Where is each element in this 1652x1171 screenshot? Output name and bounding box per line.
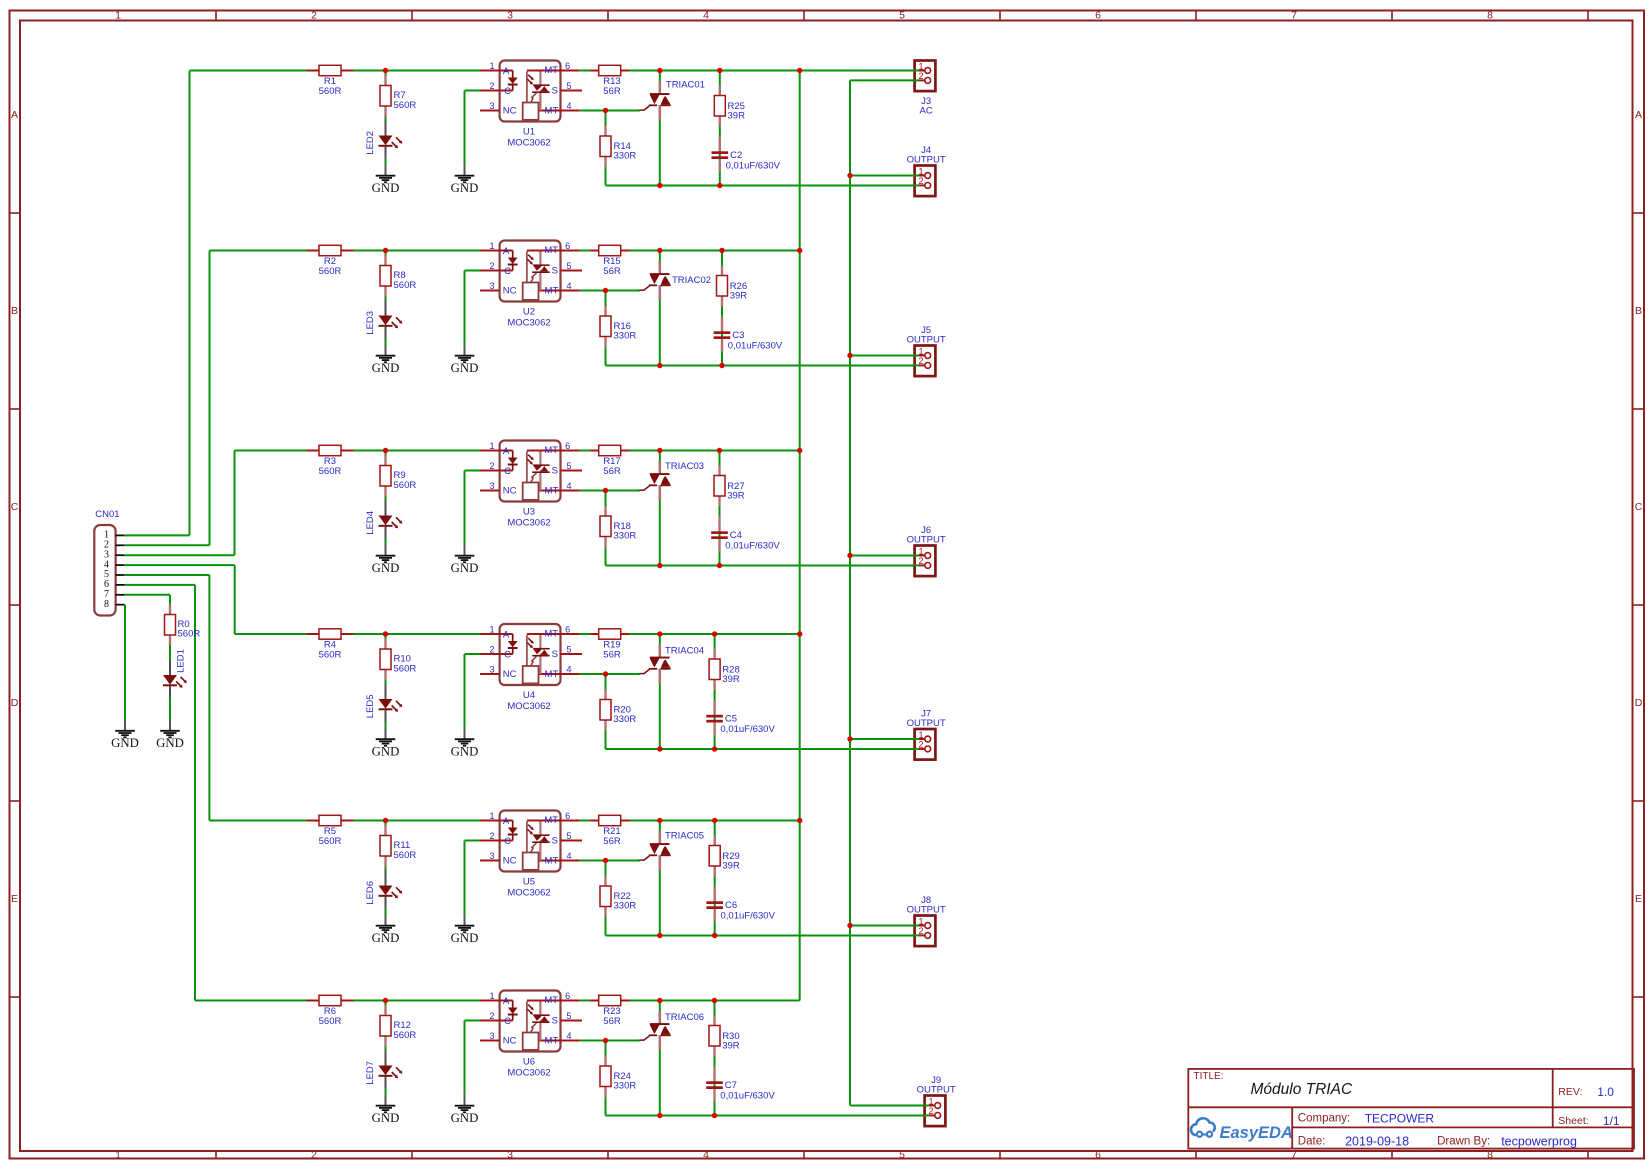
svg-text:560R: 560R	[394, 1030, 417, 1041]
svg-text:1.0: 1.0	[1597, 1085, 1614, 1099]
wire trunk channel 6	[194, 585, 196, 1001]
junction	[717, 183, 722, 188]
wire LED branch	[385, 634, 387, 648]
svg-text:MOC3062: MOC3062	[507, 701, 550, 712]
wire gate net	[580, 290, 640, 292]
optocoupler U6 MOC3062	[480, 991, 582, 1079]
wire AC return bus	[849, 80, 851, 1105]
svg-text:E: E	[11, 893, 18, 905]
svg-text:2: 2	[311, 10, 317, 22]
svg-text:TRIAC03: TRIAC03	[665, 461, 704, 472]
svg-text:A: A	[503, 246, 510, 257]
svg-text:56R: 56R	[603, 266, 621, 277]
svg-text:LED7: LED7	[365, 1061, 376, 1085]
junction	[383, 68, 388, 73]
svg-text:GND: GND	[372, 1111, 400, 1125]
svg-text:0,01uF/630V: 0,01uF/630V	[728, 340, 783, 351]
wire channel top left	[209, 820, 480, 822]
wire to ground	[464, 1021, 466, 1095]
svg-text:GND: GND	[451, 181, 479, 195]
resistor R22 330R	[600, 876, 636, 917]
svg-text:MOC3062: MOC3062	[507, 517, 550, 528]
svg-text:5: 5	[899, 10, 905, 22]
resistor R24 330R	[600, 1056, 636, 1097]
svg-text:NC: NC	[503, 285, 517, 296]
svg-text:U6: U6	[523, 1056, 535, 1067]
wire capacitor pins	[713, 1067, 715, 1082]
wire triac top	[659, 451, 661, 473]
wire U cathode	[465, 653, 481, 655]
wire trunk channel 4	[234, 565, 236, 634]
junction	[847, 353, 852, 358]
svg-text:U4: U4	[523, 690, 535, 701]
pin 7 of CN01	[116, 594, 125, 596]
wire snubber top	[721, 251, 723, 276]
svg-text:GND: GND	[451, 1111, 479, 1125]
junction	[847, 923, 852, 928]
svg-text:0,01uF/630V: 0,01uF/630V	[720, 1090, 775, 1101]
LED LED2	[365, 121, 403, 159]
connector J7 OUTPUT	[907, 709, 946, 760]
svg-text:C6: C6	[725, 900, 737, 911]
svg-text:GND: GND	[372, 745, 400, 759]
svg-text:330R: 330R	[614, 331, 637, 342]
svg-text:GND: GND	[451, 361, 479, 375]
wire R to LED	[385, 494, 387, 502]
wire U cathode	[465, 840, 481, 842]
resistor R15 56R	[591, 245, 630, 277]
svg-text:OUTPUT: OUTPUT	[907, 154, 946, 165]
svg-text:MT: MT	[544, 245, 558, 256]
svg-text:1: 1	[918, 546, 923, 556]
svg-text:MT: MT	[544, 629, 558, 640]
svg-text:TRIAC04: TRIAC04	[665, 646, 704, 657]
svg-text:8: 8	[104, 599, 109, 610]
resistor R8 560R	[380, 256, 416, 297]
junction	[603, 488, 608, 493]
svg-text:3: 3	[507, 1149, 513, 1161]
svg-text:3: 3	[489, 101, 494, 111]
wire LED to ground	[385, 338, 387, 346]
resistor R19 56R	[591, 629, 630, 661]
pin 1 of J6	[912, 555, 919, 557]
junction	[383, 631, 388, 636]
wire channel top left	[235, 633, 480, 635]
svg-text:C4: C4	[730, 530, 742, 541]
svg-text:2: 2	[918, 740, 923, 750]
resistor R11 560R	[380, 826, 416, 867]
wire R to LED	[385, 864, 387, 872]
resistor R26 39R	[717, 266, 748, 307]
svg-text:2: 2	[918, 176, 923, 186]
wire CN01.4 to channel 4	[125, 564, 235, 566]
optocoupler U4 MOC3062	[480, 624, 582, 712]
wire R down	[605, 1041, 607, 1067]
svg-text:E: E	[1635, 893, 1642, 905]
svg-text:5: 5	[899, 1149, 905, 1161]
svg-text:Módulo TRIAC: Módulo TRIAC	[1251, 1081, 1353, 1098]
svg-text:MT: MT	[544, 995, 558, 1006]
wire R to bottom	[605, 730, 607, 749]
resistor R13 56R	[591, 65, 630, 97]
svg-text:1: 1	[489, 811, 494, 821]
svg-text:6: 6	[565, 991, 570, 1001]
svg-text:C: C	[504, 86, 511, 97]
ground	[451, 1095, 479, 1125]
svg-text:LED2: LED2	[365, 131, 376, 155]
junction	[712, 746, 717, 751]
svg-text:TRIAC06: TRIAC06	[665, 1012, 704, 1023]
wire channel top left	[190, 70, 481, 72]
wire J9 pin1	[850, 1105, 929, 1107]
wire LED to ground	[385, 538, 387, 546]
resistor R18 330R	[600, 506, 636, 547]
wire J3 pin2	[850, 79, 919, 81]
wire CN01.7 to R0	[125, 594, 170, 596]
svg-text:6: 6	[565, 241, 570, 251]
wire triac bottom	[659, 669, 661, 749]
connector CN01	[94, 509, 125, 616]
svg-text:7: 7	[1291, 1149, 1297, 1161]
ground	[111, 720, 139, 750]
junction	[717, 68, 722, 73]
svg-text:LED6: LED6	[365, 881, 376, 905]
pin 1 of J5	[912, 355, 919, 357]
wire to ground	[464, 841, 466, 915]
resistor R20 330R	[600, 690, 636, 731]
junction	[603, 671, 608, 676]
svg-text:C5: C5	[725, 713, 737, 724]
wire snubber bottom	[714, 680, 716, 749]
svg-text:MT: MT	[545, 669, 559, 680]
wire channel top left	[235, 450, 481, 452]
svg-text:MT: MT	[545, 105, 559, 116]
wire capacitor pins	[713, 700, 715, 715]
svg-text:1: 1	[489, 241, 494, 251]
svg-text:39R: 39R	[722, 1041, 740, 1052]
svg-text:C: C	[1635, 501, 1643, 513]
wire gate net	[580, 490, 640, 492]
svg-text:2: 2	[918, 926, 923, 936]
svg-text:4: 4	[566, 1031, 571, 1041]
junction	[603, 1038, 608, 1043]
junction	[603, 288, 608, 293]
junction	[712, 998, 717, 1003]
ground	[156, 720, 184, 750]
svg-text:REV:: REV:	[1558, 1086, 1582, 1098]
junction	[712, 1113, 717, 1118]
wire U cathode	[465, 470, 481, 472]
svg-text:6: 6	[1095, 10, 1101, 22]
svg-text:5: 5	[566, 831, 571, 841]
junction	[383, 448, 388, 453]
junction	[657, 68, 662, 73]
junction	[657, 563, 662, 568]
pin 2 of J7	[912, 748, 919, 750]
pin 1 of J7	[912, 738, 919, 740]
wire to ground	[464, 271, 466, 345]
svg-text:1: 1	[918, 346, 923, 356]
svg-text:OUTPUT: OUTPUT	[907, 718, 946, 729]
wire R to bottom	[605, 1097, 607, 1116]
ground	[372, 165, 400, 195]
resistor R17 56R	[591, 445, 630, 477]
svg-text:A: A	[503, 816, 510, 827]
svg-text:MOC3062: MOC3062	[507, 317, 550, 328]
connector J9 OUTPUT	[917, 1075, 956, 1126]
ground	[451, 545, 479, 575]
svg-text:1: 1	[918, 916, 923, 926]
wire trunk channel 2	[209, 251, 211, 546]
junction	[657, 818, 662, 823]
svg-text:330R: 330R	[614, 901, 637, 912]
svg-text:NC: NC	[503, 485, 517, 496]
pin 3 of CN01	[116, 554, 125, 556]
svg-text:B: B	[1635, 305, 1642, 317]
wire triac bottom	[659, 286, 661, 366]
pin 8 of CN01	[116, 604, 125, 606]
svg-text:MT: MT	[545, 1035, 559, 1046]
capacitor C2 0,01uF/630V	[712, 150, 781, 172]
capacitor C4 0,01uF/630V	[711, 530, 780, 552]
svg-text:2019-09-18: 2019-09-18	[1345, 1135, 1409, 1149]
wire gate net	[580, 110, 640, 112]
svg-text:5: 5	[566, 1011, 571, 1021]
svg-text:A: A	[503, 996, 510, 1007]
svg-text:MT: MT	[545, 285, 559, 296]
svg-text:3: 3	[489, 281, 494, 291]
wire gate net	[580, 860, 640, 862]
wire capacitor pins	[714, 887, 716, 902]
svg-text:MOC3062: MOC3062	[507, 1067, 550, 1078]
wire channel bottom	[606, 365, 919, 367]
triac TRIAC03	[639, 461, 704, 501]
wire triac top	[659, 1001, 661, 1023]
junction	[797, 68, 802, 73]
svg-text:3: 3	[489, 1031, 494, 1041]
svg-text:330R: 330R	[614, 151, 637, 162]
wire LED branch	[385, 451, 387, 465]
junction	[797, 631, 802, 636]
ground	[372, 345, 400, 375]
svg-text:1: 1	[489, 624, 494, 634]
svg-text:39R: 39R	[728, 111, 746, 122]
junction	[383, 998, 388, 1003]
wire snubber bottom	[721, 296, 723, 365]
wire to ground	[464, 471, 466, 545]
svg-text:C: C	[504, 266, 511, 277]
junction	[657, 933, 662, 938]
resistor R1 560R	[307, 65, 354, 97]
wire R0 to LED1	[169, 645, 171, 661]
junction	[719, 363, 724, 368]
svg-text:NC: NC	[503, 105, 517, 116]
svg-text:OUTPUT: OUTPUT	[907, 904, 946, 915]
svg-text:LED3: LED3	[365, 311, 376, 335]
svg-text:C7: C7	[725, 1080, 737, 1091]
resistor R7 560R	[380, 76, 416, 117]
svg-text:1: 1	[115, 10, 121, 22]
svg-text:2: 2	[489, 81, 494, 91]
triac TRIAC04	[639, 645, 704, 685]
svg-text:5: 5	[566, 461, 571, 471]
svg-text:0,01uF/630V: 0,01uF/630V	[725, 540, 780, 551]
svg-text:56R: 56R	[603, 86, 621, 97]
pin 2 of J9	[922, 1114, 929, 1116]
svg-text:56R: 56R	[603, 466, 621, 477]
svg-text:S: S	[552, 85, 558, 96]
wire R down	[605, 491, 607, 517]
svg-text:1: 1	[918, 730, 923, 740]
resistor R3 560R	[307, 445, 354, 477]
junction	[657, 248, 662, 253]
ground	[451, 345, 479, 375]
wire CN01.3 to channel 3	[125, 554, 235, 556]
svg-text:NC: NC	[503, 669, 517, 680]
wire capacitor pins	[718, 517, 720, 532]
wire capacitor pins	[719, 137, 721, 152]
svg-text:4: 4	[566, 851, 571, 861]
pin 2 of J3	[912, 79, 919, 81]
svg-text:1: 1	[489, 991, 494, 1001]
LED LED1	[163, 649, 187, 698]
junction	[847, 173, 852, 178]
wire capacitor pins	[721, 317, 723, 332]
optocoupler U1 MOC3062	[480, 61, 582, 149]
svg-text:0,01uF/630V: 0,01uF/630V	[726, 160, 781, 171]
svg-text:4: 4	[703, 10, 709, 22]
junction	[847, 553, 852, 558]
junction	[712, 933, 717, 938]
svg-text:560R: 560R	[319, 266, 342, 277]
svg-text:D: D	[1635, 697, 1643, 709]
svg-text:TECPOWER: TECPOWER	[1365, 1112, 1435, 1126]
svg-text:GND: GND	[372, 181, 400, 195]
svg-text:39R: 39R	[722, 861, 740, 872]
svg-text:3: 3	[489, 851, 494, 861]
wire R to LED	[385, 678, 387, 686]
wire triac top	[659, 251, 661, 273]
pin 1 of J4	[912, 175, 919, 177]
junction	[603, 108, 608, 113]
svg-text:S: S	[552, 465, 558, 476]
ground	[372, 545, 400, 575]
svg-text:AC: AC	[919, 105, 932, 116]
svg-text:1: 1	[489, 61, 494, 71]
svg-text:2: 2	[489, 644, 494, 654]
svg-text:5: 5	[566, 261, 571, 271]
svg-text:1: 1	[918, 166, 923, 176]
svg-text:C: C	[11, 501, 19, 513]
svg-text:56R: 56R	[603, 650, 621, 661]
svg-text:U5: U5	[523, 876, 535, 887]
wire gate net	[580, 1040, 640, 1042]
wire channel bottom	[606, 1115, 929, 1117]
LED LED5	[365, 684, 403, 722]
junction	[657, 363, 662, 368]
svg-text:1/1: 1/1	[1603, 1114, 1620, 1128]
svg-text:8: 8	[1487, 1149, 1493, 1161]
junction	[717, 563, 722, 568]
wire triac bottom	[659, 106, 661, 186]
connector J4 OUTPUT	[907, 145, 946, 196]
wire CN01.8 to ground	[124, 605, 126, 720]
svg-text:Date:: Date:	[1298, 1136, 1326, 1148]
resistor R14 330R	[600, 126, 636, 167]
wire triac bottom	[659, 856, 661, 936]
pin 1 of J8	[912, 925, 919, 927]
junction	[657, 746, 662, 751]
wire channel top right	[580, 70, 919, 72]
svg-text:4: 4	[566, 101, 571, 111]
svg-text:1: 1	[489, 441, 494, 451]
wire LED branch	[385, 251, 387, 265]
wire snubber bottom	[714, 866, 716, 935]
wire R down	[605, 291, 607, 317]
pin 4 of CN01	[116, 564, 125, 566]
svg-text:C: C	[504, 836, 511, 847]
svg-text:3: 3	[489, 481, 494, 491]
connector J8 OUTPUT	[907, 895, 946, 946]
wire R to LED	[385, 1044, 387, 1052]
svg-text:5: 5	[566, 644, 571, 654]
svg-text:A: A	[503, 629, 510, 640]
capacitor C7 0,01uF/630V	[706, 1080, 775, 1102]
wire to ground	[464, 654, 466, 728]
svg-text:560R: 560R	[394, 280, 417, 291]
svg-text:LED5: LED5	[365, 694, 376, 718]
resistor R12 560R	[380, 1006, 416, 1047]
resistor R23 56R	[591, 995, 630, 1027]
svg-text:MT: MT	[545, 855, 559, 866]
wire channel top right	[580, 1000, 800, 1002]
svg-text:4: 4	[566, 281, 571, 291]
resistor R27 39R	[714, 466, 745, 507]
svg-text:C2: C2	[730, 150, 742, 161]
svg-text:GND: GND	[372, 561, 400, 575]
svg-text:D: D	[11, 697, 19, 709]
svg-text:NC: NC	[503, 1035, 517, 1046]
svg-text:A: A	[1635, 109, 1642, 121]
svg-text:560R: 560R	[178, 629, 201, 640]
ground	[372, 915, 400, 945]
triac TRIAC06	[639, 1011, 704, 1051]
wire CN01.5 to channel 5	[125, 574, 210, 576]
svg-text:56R: 56R	[603, 836, 621, 847]
wire channel bottom	[606, 565, 919, 567]
junction	[657, 448, 662, 453]
svg-text:1: 1	[115, 1149, 121, 1161]
junction	[657, 183, 662, 188]
pin 2 of J8	[912, 934, 919, 936]
ground	[451, 728, 479, 758]
svg-text:TRIAC02: TRIAC02	[672, 275, 711, 286]
wire channel top right	[580, 450, 800, 452]
resistor R4 560R	[307, 629, 354, 661]
pin 1 of J3	[912, 70, 919, 72]
capacitor C6 0,01uF/630V	[706, 900, 775, 922]
svg-text:MT: MT	[544, 65, 558, 76]
svg-text:2: 2	[918, 356, 923, 366]
wire LED branch	[385, 71, 387, 85]
svg-text:MT: MT	[544, 445, 558, 456]
svg-text:GND: GND	[372, 931, 400, 945]
junction	[383, 818, 388, 823]
svg-text:EasyEDA: EasyEDA	[1220, 1124, 1293, 1142]
wire R down	[605, 111, 607, 137]
wire J6 pin1	[850, 555, 919, 557]
wire LED to ground	[385, 721, 387, 729]
